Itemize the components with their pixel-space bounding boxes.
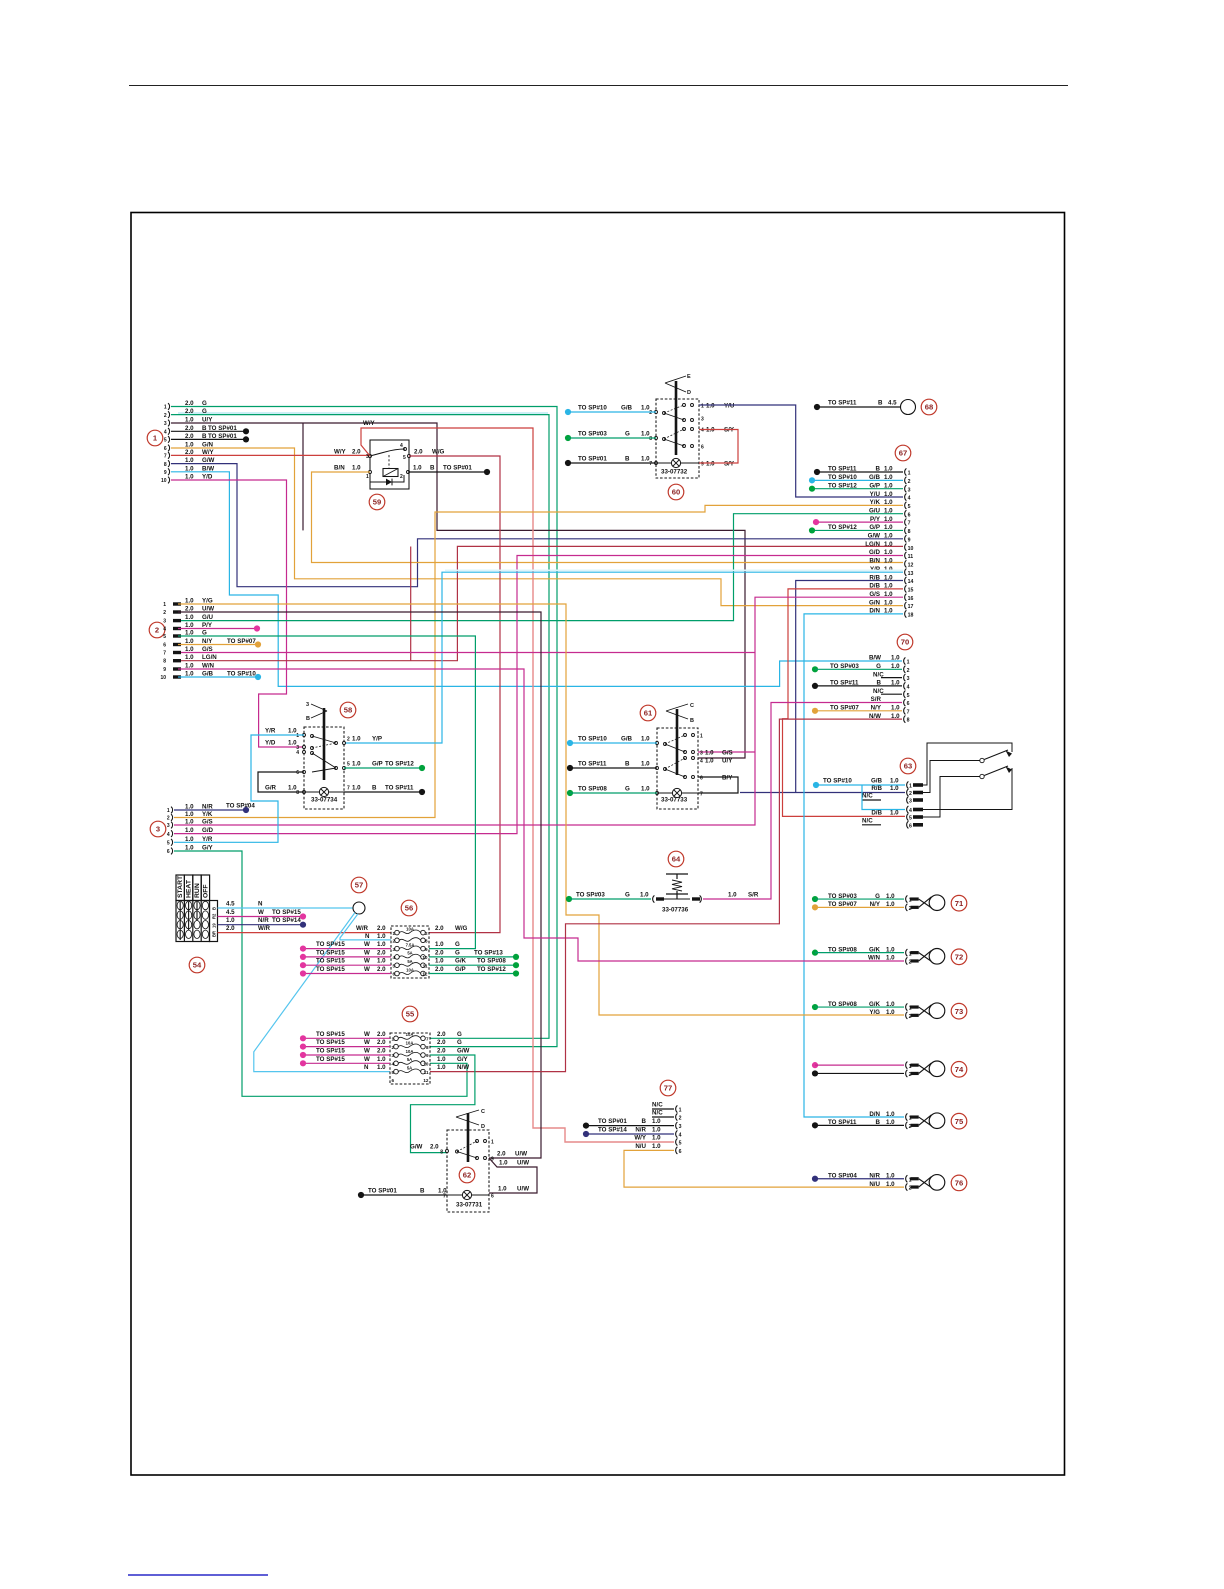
svg-text:1.0: 1.0 bbox=[437, 1064, 446, 1071]
svg-text:TO SP#03: TO SP#03 bbox=[576, 892, 605, 899]
svg-text:C: C bbox=[481, 1109, 485, 1115]
svg-text:5: 5 bbox=[393, 963, 396, 968]
svg-text:2: 2 bbox=[392, 1045, 395, 1050]
svg-text:9: 9 bbox=[425, 947, 428, 952]
svg-text:G/K: G/K bbox=[455, 958, 467, 965]
svg-text:1.0: 1.0 bbox=[185, 819, 194, 826]
svg-text:2.0: 2.0 bbox=[377, 1031, 386, 1038]
svg-text:6: 6 bbox=[163, 643, 166, 649]
svg-text:G/Y: G/Y bbox=[457, 1056, 469, 1063]
svg-text:U/W: U/W bbox=[517, 1160, 529, 1167]
svg-text:10A: 10A bbox=[406, 1032, 414, 1037]
svg-text:6: 6 bbox=[907, 701, 910, 707]
svg-text:56: 56 bbox=[405, 904, 413, 913]
svg-text:3: 3 bbox=[700, 751, 703, 757]
svg-text:TO SP#10: TO SP#10 bbox=[578, 736, 607, 743]
svg-text:G/W: G/W bbox=[457, 1048, 470, 1055]
svg-text:TO SP#08: TO SP#08 bbox=[828, 1001, 857, 1008]
svg-text:W: W bbox=[364, 958, 370, 965]
svg-text:1.0: 1.0 bbox=[377, 1056, 386, 1063]
svg-text:33-07732: 33-07732 bbox=[661, 469, 688, 476]
svg-text:W/R: W/R bbox=[356, 925, 369, 932]
svg-text:1: 1 bbox=[679, 1108, 682, 1114]
svg-text:U/Y: U/Y bbox=[722, 758, 733, 765]
svg-text:1: 1 bbox=[163, 602, 166, 608]
svg-text:2.0: 2.0 bbox=[377, 1039, 386, 1046]
svg-text:W/Y: W/Y bbox=[363, 420, 376, 427]
svg-text:Y/R: Y/R bbox=[202, 836, 213, 843]
svg-text:2.0: 2.0 bbox=[437, 1048, 446, 1055]
svg-text:B: B bbox=[430, 465, 435, 472]
svg-text:6: 6 bbox=[679, 1149, 682, 1155]
svg-text:15: 15 bbox=[908, 588, 914, 594]
svg-text:2: 2 bbox=[167, 816, 170, 822]
svg-text:TO SP#01: TO SP#01 bbox=[443, 465, 472, 472]
svg-text:9: 9 bbox=[163, 667, 166, 673]
svg-text:1.0: 1.0 bbox=[352, 736, 361, 743]
svg-text:1: 1 bbox=[491, 1140, 494, 1146]
svg-text:1.0: 1.0 bbox=[641, 431, 650, 438]
svg-text:W: W bbox=[258, 909, 264, 916]
svg-text:N/C: N/C bbox=[862, 817, 873, 824]
svg-text:2: 2 bbox=[164, 413, 167, 419]
svg-text:1.0: 1.0 bbox=[438, 1188, 447, 1195]
svg-text:B: B bbox=[642, 1118, 647, 1125]
svg-text:N/W: N/W bbox=[457, 1064, 469, 1071]
svg-text:B/W: B/W bbox=[869, 655, 881, 662]
svg-text:9: 9 bbox=[164, 470, 167, 476]
svg-text:TO SP#04: TO SP#04 bbox=[828, 1172, 857, 1179]
svg-text:Y/R: Y/R bbox=[265, 728, 276, 735]
svg-text:Y/P: Y/P bbox=[372, 736, 382, 743]
svg-text:1.0: 1.0 bbox=[705, 750, 714, 757]
svg-text:1: 1 bbox=[167, 808, 170, 814]
svg-text:3: 3 bbox=[163, 619, 166, 625]
svg-text:G/D: G/D bbox=[202, 827, 214, 834]
svg-text:4.5: 4.5 bbox=[226, 901, 235, 908]
svg-text:1.0: 1.0 bbox=[886, 893, 895, 900]
svg-text:2.0: 2.0 bbox=[352, 449, 361, 456]
svg-text:1.0: 1.0 bbox=[499, 1160, 508, 1167]
svg-text:B: B bbox=[878, 400, 883, 407]
svg-text:RUN: RUN bbox=[194, 883, 201, 898]
svg-text:3: 3 bbox=[167, 823, 170, 829]
svg-text:18: 18 bbox=[908, 613, 914, 619]
svg-text:72: 72 bbox=[955, 952, 963, 961]
svg-text:71: 71 bbox=[955, 899, 964, 908]
svg-text:TO SP#08: TO SP#08 bbox=[828, 946, 857, 953]
svg-text:W: W bbox=[364, 941, 370, 948]
svg-text:4.5: 4.5 bbox=[888, 400, 897, 407]
svg-text:1.0: 1.0 bbox=[890, 778, 899, 785]
svg-text:3: 3 bbox=[701, 417, 704, 423]
svg-text:5: 5 bbox=[907, 693, 910, 699]
svg-text:N/R: N/R bbox=[635, 1127, 646, 1134]
svg-text:N/U: N/U bbox=[869, 1181, 880, 1188]
svg-text:1.0: 1.0 bbox=[641, 405, 650, 412]
svg-text:2.0: 2.0 bbox=[437, 1031, 446, 1038]
svg-text:19: 19 bbox=[212, 923, 217, 928]
svg-text:6: 6 bbox=[393, 972, 396, 977]
svg-text:TO SP#15: TO SP#15 bbox=[316, 966, 345, 973]
svg-text:1.0: 1.0 bbox=[185, 646, 194, 653]
svg-text:1.0: 1.0 bbox=[185, 836, 194, 843]
svg-text:1.0: 1.0 bbox=[706, 461, 715, 468]
svg-text:10: 10 bbox=[422, 955, 428, 960]
svg-text:BR: BR bbox=[212, 931, 217, 937]
svg-text:12: 12 bbox=[422, 972, 428, 977]
svg-text:TO SP#15: TO SP#15 bbox=[272, 909, 301, 916]
svg-text:3: 3 bbox=[679, 1124, 682, 1130]
svg-text:1: 1 bbox=[392, 1037, 395, 1042]
svg-text:4: 4 bbox=[392, 1062, 395, 1067]
svg-text:1: 1 bbox=[366, 474, 369, 480]
svg-text:TO SP#15: TO SP#15 bbox=[316, 1039, 345, 1046]
svg-text:7: 7 bbox=[163, 651, 166, 657]
svg-text:N/C: N/C bbox=[652, 1110, 663, 1117]
svg-text:G/W: G/W bbox=[868, 533, 881, 540]
svg-text:73: 73 bbox=[955, 1007, 963, 1016]
svg-text:1.0: 1.0 bbox=[706, 403, 715, 410]
svg-text:Y/G: Y/G bbox=[869, 1009, 880, 1016]
svg-text:5A: 5A bbox=[407, 959, 412, 964]
svg-text:8: 8 bbox=[296, 790, 299, 796]
svg-text:2: 2 bbox=[425, 931, 428, 936]
svg-text:7: 7 bbox=[908, 521, 911, 527]
svg-text:1.0: 1.0 bbox=[886, 1009, 895, 1016]
svg-text:TO SP#07: TO SP#07 bbox=[828, 901, 857, 908]
svg-text:B: B bbox=[212, 907, 217, 910]
svg-text:TO SP#13: TO SP#13 bbox=[474, 949, 503, 956]
svg-text:5A: 5A bbox=[407, 951, 412, 956]
svg-text:2.0: 2.0 bbox=[377, 1048, 386, 1055]
svg-text:2.0: 2.0 bbox=[497, 1151, 506, 1158]
svg-text:TO SP#11: TO SP#11 bbox=[828, 1119, 857, 1126]
svg-text:12: 12 bbox=[423, 1078, 429, 1083]
svg-text:33-07736: 33-07736 bbox=[662, 907, 689, 914]
svg-text:59: 59 bbox=[373, 498, 381, 507]
svg-text:B: B bbox=[306, 716, 310, 722]
svg-text:3: 3 bbox=[907, 676, 910, 682]
svg-text:B: B bbox=[625, 456, 630, 463]
svg-text:1.0: 1.0 bbox=[352, 785, 361, 792]
svg-text:R/B: R/B bbox=[871, 785, 882, 792]
svg-text:5: 5 bbox=[164, 438, 167, 444]
svg-text:4: 4 bbox=[296, 750, 299, 756]
svg-text:HEAT: HEAT bbox=[186, 879, 193, 898]
svg-text:N/R: N/R bbox=[258, 917, 269, 924]
svg-text:D: D bbox=[687, 390, 691, 396]
svg-text:5: 5 bbox=[347, 762, 350, 768]
svg-text:B/Y: B/Y bbox=[722, 775, 733, 782]
svg-text:TO SP#03: TO SP#03 bbox=[828, 893, 857, 900]
svg-text:G: G bbox=[875, 893, 880, 900]
svg-text:N/Y: N/Y bbox=[870, 901, 881, 908]
svg-text:2: 2 bbox=[155, 626, 159, 635]
svg-text:1.0: 1.0 bbox=[652, 1118, 661, 1125]
svg-text:9: 9 bbox=[908, 537, 911, 543]
svg-text:N/C: N/C bbox=[873, 688, 884, 695]
svg-text:10: 10 bbox=[160, 675, 166, 681]
svg-text:N: N bbox=[258, 901, 263, 908]
svg-text:U/W: U/W bbox=[517, 1186, 529, 1193]
svg-text:1: 1 bbox=[296, 733, 299, 739]
svg-text:TO SP#11: TO SP#11 bbox=[385, 785, 414, 792]
svg-text:2.0: 2.0 bbox=[377, 949, 386, 956]
svg-text:8: 8 bbox=[164, 462, 167, 468]
svg-text:OFF: OFF bbox=[202, 884, 209, 898]
svg-text:1.0: 1.0 bbox=[886, 901, 895, 908]
svg-text:TO SP#10: TO SP#10 bbox=[823, 778, 852, 785]
svg-text:2.0: 2.0 bbox=[377, 925, 386, 932]
svg-text:B: B bbox=[625, 761, 630, 768]
svg-text:2: 2 bbox=[347, 737, 350, 743]
svg-text:W: W bbox=[364, 949, 370, 956]
svg-text:TO SP#08: TO SP#08 bbox=[477, 958, 506, 965]
svg-text:1.0: 1.0 bbox=[891, 655, 900, 662]
svg-text:3: 3 bbox=[306, 702, 309, 708]
svg-text:77: 77 bbox=[664, 1084, 672, 1093]
svg-text:TO SP#15: TO SP#15 bbox=[316, 949, 345, 956]
svg-text:14: 14 bbox=[908, 579, 914, 585]
svg-text:5: 5 bbox=[908, 504, 911, 510]
svg-text:1.0: 1.0 bbox=[890, 810, 899, 817]
svg-text:N/C: N/C bbox=[862, 793, 873, 800]
svg-text:1.0: 1.0 bbox=[435, 958, 444, 965]
svg-text:2: 2 bbox=[649, 410, 652, 416]
svg-text:1: 1 bbox=[164, 405, 167, 411]
svg-text:1.0: 1.0 bbox=[377, 933, 386, 940]
svg-text:2.0: 2.0 bbox=[437, 1039, 446, 1046]
svg-text:W/G: W/G bbox=[455, 925, 468, 932]
svg-text:1.0: 1.0 bbox=[641, 786, 650, 793]
svg-text:4: 4 bbox=[700, 759, 703, 765]
svg-text:4: 4 bbox=[909, 808, 912, 814]
svg-text:5: 5 bbox=[392, 1070, 395, 1075]
svg-text:1.0: 1.0 bbox=[886, 1119, 895, 1126]
svg-text:6: 6 bbox=[909, 823, 912, 829]
svg-text:1.0: 1.0 bbox=[377, 941, 386, 948]
svg-text:TO SP#01: TO SP#01 bbox=[368, 1188, 397, 1195]
svg-text:8: 8 bbox=[649, 436, 652, 442]
svg-text:8: 8 bbox=[425, 939, 428, 944]
svg-text:2.0: 2.0 bbox=[430, 1144, 439, 1151]
svg-text:1: 1 bbox=[393, 931, 396, 936]
svg-text:1.0: 1.0 bbox=[377, 958, 386, 965]
svg-text:TO SP#11: TO SP#11 bbox=[578, 761, 607, 768]
svg-text:2.0: 2.0 bbox=[414, 449, 423, 456]
svg-text:G: G bbox=[625, 431, 630, 438]
svg-text:10: 10 bbox=[908, 546, 914, 552]
svg-text:G/P: G/P bbox=[372, 761, 383, 768]
svg-text:13: 13 bbox=[908, 571, 914, 577]
svg-text:17: 17 bbox=[908, 604, 914, 610]
svg-text:3: 3 bbox=[156, 825, 160, 834]
svg-text:33-07731: 33-07731 bbox=[456, 1202, 483, 1209]
svg-text:1.0: 1.0 bbox=[705, 758, 714, 765]
svg-text:TO SP#01: TO SP#01 bbox=[598, 1118, 627, 1125]
svg-text:W/Y: W/Y bbox=[634, 1135, 647, 1142]
svg-text:33-07734: 33-07734 bbox=[311, 797, 338, 804]
svg-text:1.0: 1.0 bbox=[185, 827, 194, 834]
svg-text:6: 6 bbox=[296, 770, 299, 776]
svg-text:R2: R2 bbox=[212, 913, 217, 919]
svg-text:1.0: 1.0 bbox=[498, 1186, 507, 1193]
svg-text:3: 3 bbox=[908, 487, 911, 493]
svg-text:9: 9 bbox=[426, 1053, 429, 1058]
svg-text:4: 4 bbox=[907, 685, 910, 691]
svg-text:5: 5 bbox=[679, 1141, 682, 1147]
svg-text:76: 76 bbox=[955, 1179, 963, 1188]
svg-text:B: B bbox=[690, 718, 694, 724]
svg-text:TO SP#15: TO SP#15 bbox=[316, 958, 345, 965]
svg-text:W: W bbox=[364, 966, 370, 973]
svg-text:1.0: 1.0 bbox=[352, 465, 361, 472]
svg-text:TO SP#15: TO SP#15 bbox=[316, 941, 345, 948]
svg-text:TO SP#15: TO SP#15 bbox=[316, 1048, 345, 1055]
svg-text:58: 58 bbox=[344, 706, 352, 715]
svg-text:75: 75 bbox=[955, 1117, 964, 1126]
svg-text:5: 5 bbox=[403, 455, 406, 461]
svg-text:1.0: 1.0 bbox=[185, 654, 194, 661]
svg-text:6: 6 bbox=[164, 446, 167, 452]
svg-text:1.0: 1.0 bbox=[886, 1181, 895, 1188]
svg-text:60: 60 bbox=[672, 488, 680, 497]
svg-text:1.0: 1.0 bbox=[890, 785, 899, 792]
svg-text:67: 67 bbox=[899, 449, 907, 458]
svg-text:63: 63 bbox=[904, 762, 912, 771]
svg-text:2: 2 bbox=[908, 479, 911, 485]
svg-text:Y/D: Y/D bbox=[265, 740, 276, 747]
svg-text:6: 6 bbox=[167, 849, 170, 855]
svg-text:G/P: G/P bbox=[455, 966, 466, 973]
svg-text:TO SP#15: TO SP#15 bbox=[316, 1031, 345, 1038]
svg-text:2: 2 bbox=[907, 668, 910, 674]
svg-text:1.0: 1.0 bbox=[352, 761, 361, 768]
svg-text:2: 2 bbox=[163, 610, 166, 616]
svg-text:1.0: 1.0 bbox=[886, 1111, 895, 1118]
svg-text:G: G bbox=[625, 892, 630, 899]
svg-text:11: 11 bbox=[424, 1070, 429, 1075]
svg-text:1.0: 1.0 bbox=[884, 599, 893, 606]
svg-text:2.0: 2.0 bbox=[435, 966, 444, 973]
svg-text:1: 1 bbox=[909, 784, 912, 790]
svg-text:C: C bbox=[690, 703, 694, 709]
svg-text:G/W: G/W bbox=[410, 1144, 423, 1151]
svg-text:4: 4 bbox=[908, 496, 911, 502]
svg-text:N: N bbox=[364, 1064, 369, 1071]
svg-text:1.0: 1.0 bbox=[886, 1001, 895, 1008]
svg-text:68: 68 bbox=[925, 403, 933, 412]
svg-text:TO SP#12: TO SP#12 bbox=[477, 966, 506, 973]
svg-text:70: 70 bbox=[901, 638, 909, 647]
svg-text:4: 4 bbox=[393, 955, 396, 960]
svg-text:G/K: G/K bbox=[869, 946, 881, 953]
svg-text:8: 8 bbox=[426, 1045, 429, 1050]
svg-text:10A: 10A bbox=[406, 926, 414, 931]
svg-text:B/N: B/N bbox=[334, 465, 345, 472]
svg-text:1.0: 1.0 bbox=[652, 1143, 661, 1150]
svg-text:74: 74 bbox=[955, 1065, 964, 1074]
svg-text:G/S: G/S bbox=[202, 819, 213, 826]
svg-text:4.5: 4.5 bbox=[226, 909, 235, 916]
svg-text:5: 5 bbox=[163, 634, 166, 640]
svg-text:G/B: G/B bbox=[871, 778, 883, 785]
svg-text:TO SP#08: TO SP#08 bbox=[578, 786, 607, 793]
svg-text:B: B bbox=[372, 785, 377, 792]
svg-text:6: 6 bbox=[908, 512, 911, 518]
svg-text:62: 62 bbox=[463, 1171, 471, 1180]
svg-text:4: 4 bbox=[167, 832, 170, 838]
svg-text:TO SP#04: TO SP#04 bbox=[226, 803, 255, 810]
svg-text:5: 5 bbox=[909, 816, 912, 822]
svg-text:N/U: N/U bbox=[635, 1143, 646, 1150]
svg-text:33-07733: 33-07733 bbox=[661, 797, 688, 804]
svg-text:W/G: W/G bbox=[432, 449, 445, 456]
svg-text:7.5A: 7.5A bbox=[406, 942, 415, 947]
svg-text:10A: 10A bbox=[406, 967, 414, 972]
svg-text:7: 7 bbox=[347, 786, 350, 792]
svg-text:W/R: W/R bbox=[258, 925, 271, 932]
svg-text:1.0: 1.0 bbox=[886, 1172, 895, 1179]
svg-text:TO SP#14: TO SP#14 bbox=[272, 917, 301, 924]
svg-text:G: G bbox=[625, 786, 630, 793]
svg-text:W/N: W/N bbox=[868, 955, 881, 962]
svg-text:7: 7 bbox=[907, 709, 910, 715]
svg-text:S/Y: S/Y bbox=[724, 461, 735, 468]
svg-text:G/N: G/N bbox=[869, 599, 881, 606]
svg-text:3: 3 bbox=[392, 1053, 395, 1058]
svg-text:6: 6 bbox=[491, 1194, 494, 1200]
svg-text:B: B bbox=[420, 1188, 425, 1195]
svg-text:10A: 10A bbox=[406, 1049, 414, 1054]
svg-text:G/U: G/U bbox=[202, 614, 214, 621]
svg-text:55: 55 bbox=[406, 1010, 415, 1019]
svg-text:4: 4 bbox=[164, 430, 167, 436]
svg-text:TO SP#07: TO SP#07 bbox=[227, 638, 256, 645]
svg-text:TO SP#01: TO SP#01 bbox=[578, 456, 607, 463]
svg-text:7: 7 bbox=[649, 461, 652, 467]
svg-text:N: N bbox=[365, 933, 370, 940]
svg-text:N/C: N/C bbox=[873, 671, 884, 678]
svg-text:LG/N: LG/N bbox=[202, 654, 217, 661]
svg-text:12: 12 bbox=[908, 562, 914, 568]
svg-text:5A: 5A bbox=[407, 1065, 412, 1070]
svg-text:1.0: 1.0 bbox=[728, 892, 737, 899]
svg-text:W: W bbox=[364, 1039, 370, 1046]
svg-text:TO SP#03: TO SP#03 bbox=[578, 431, 607, 438]
svg-text:1.0: 1.0 bbox=[377, 1064, 386, 1071]
svg-text:N/C: N/C bbox=[652, 1102, 663, 1109]
svg-text:7: 7 bbox=[164, 454, 167, 460]
svg-text:Y/U: Y/U bbox=[870, 491, 881, 498]
svg-text:1.0: 1.0 bbox=[652, 1135, 661, 1142]
svg-text:4: 4 bbox=[163, 627, 166, 633]
svg-text:D/B: D/B bbox=[871, 810, 882, 817]
svg-text:2: 2 bbox=[679, 1116, 682, 1122]
svg-text:2: 2 bbox=[909, 791, 912, 797]
svg-text:1.0: 1.0 bbox=[641, 736, 650, 743]
svg-text:4: 4 bbox=[679, 1133, 682, 1139]
svg-text:G/B: G/B bbox=[621, 405, 633, 412]
svg-text:3: 3 bbox=[393, 947, 396, 952]
svg-text:D/N: D/N bbox=[869, 1111, 880, 1118]
svg-text:G: G bbox=[457, 1039, 462, 1046]
svg-text:B: B bbox=[876, 1119, 881, 1126]
svg-text:3: 3 bbox=[909, 799, 912, 805]
svg-text:Y/U: Y/U bbox=[724, 403, 735, 410]
svg-text:G/S: G/S bbox=[722, 750, 733, 757]
